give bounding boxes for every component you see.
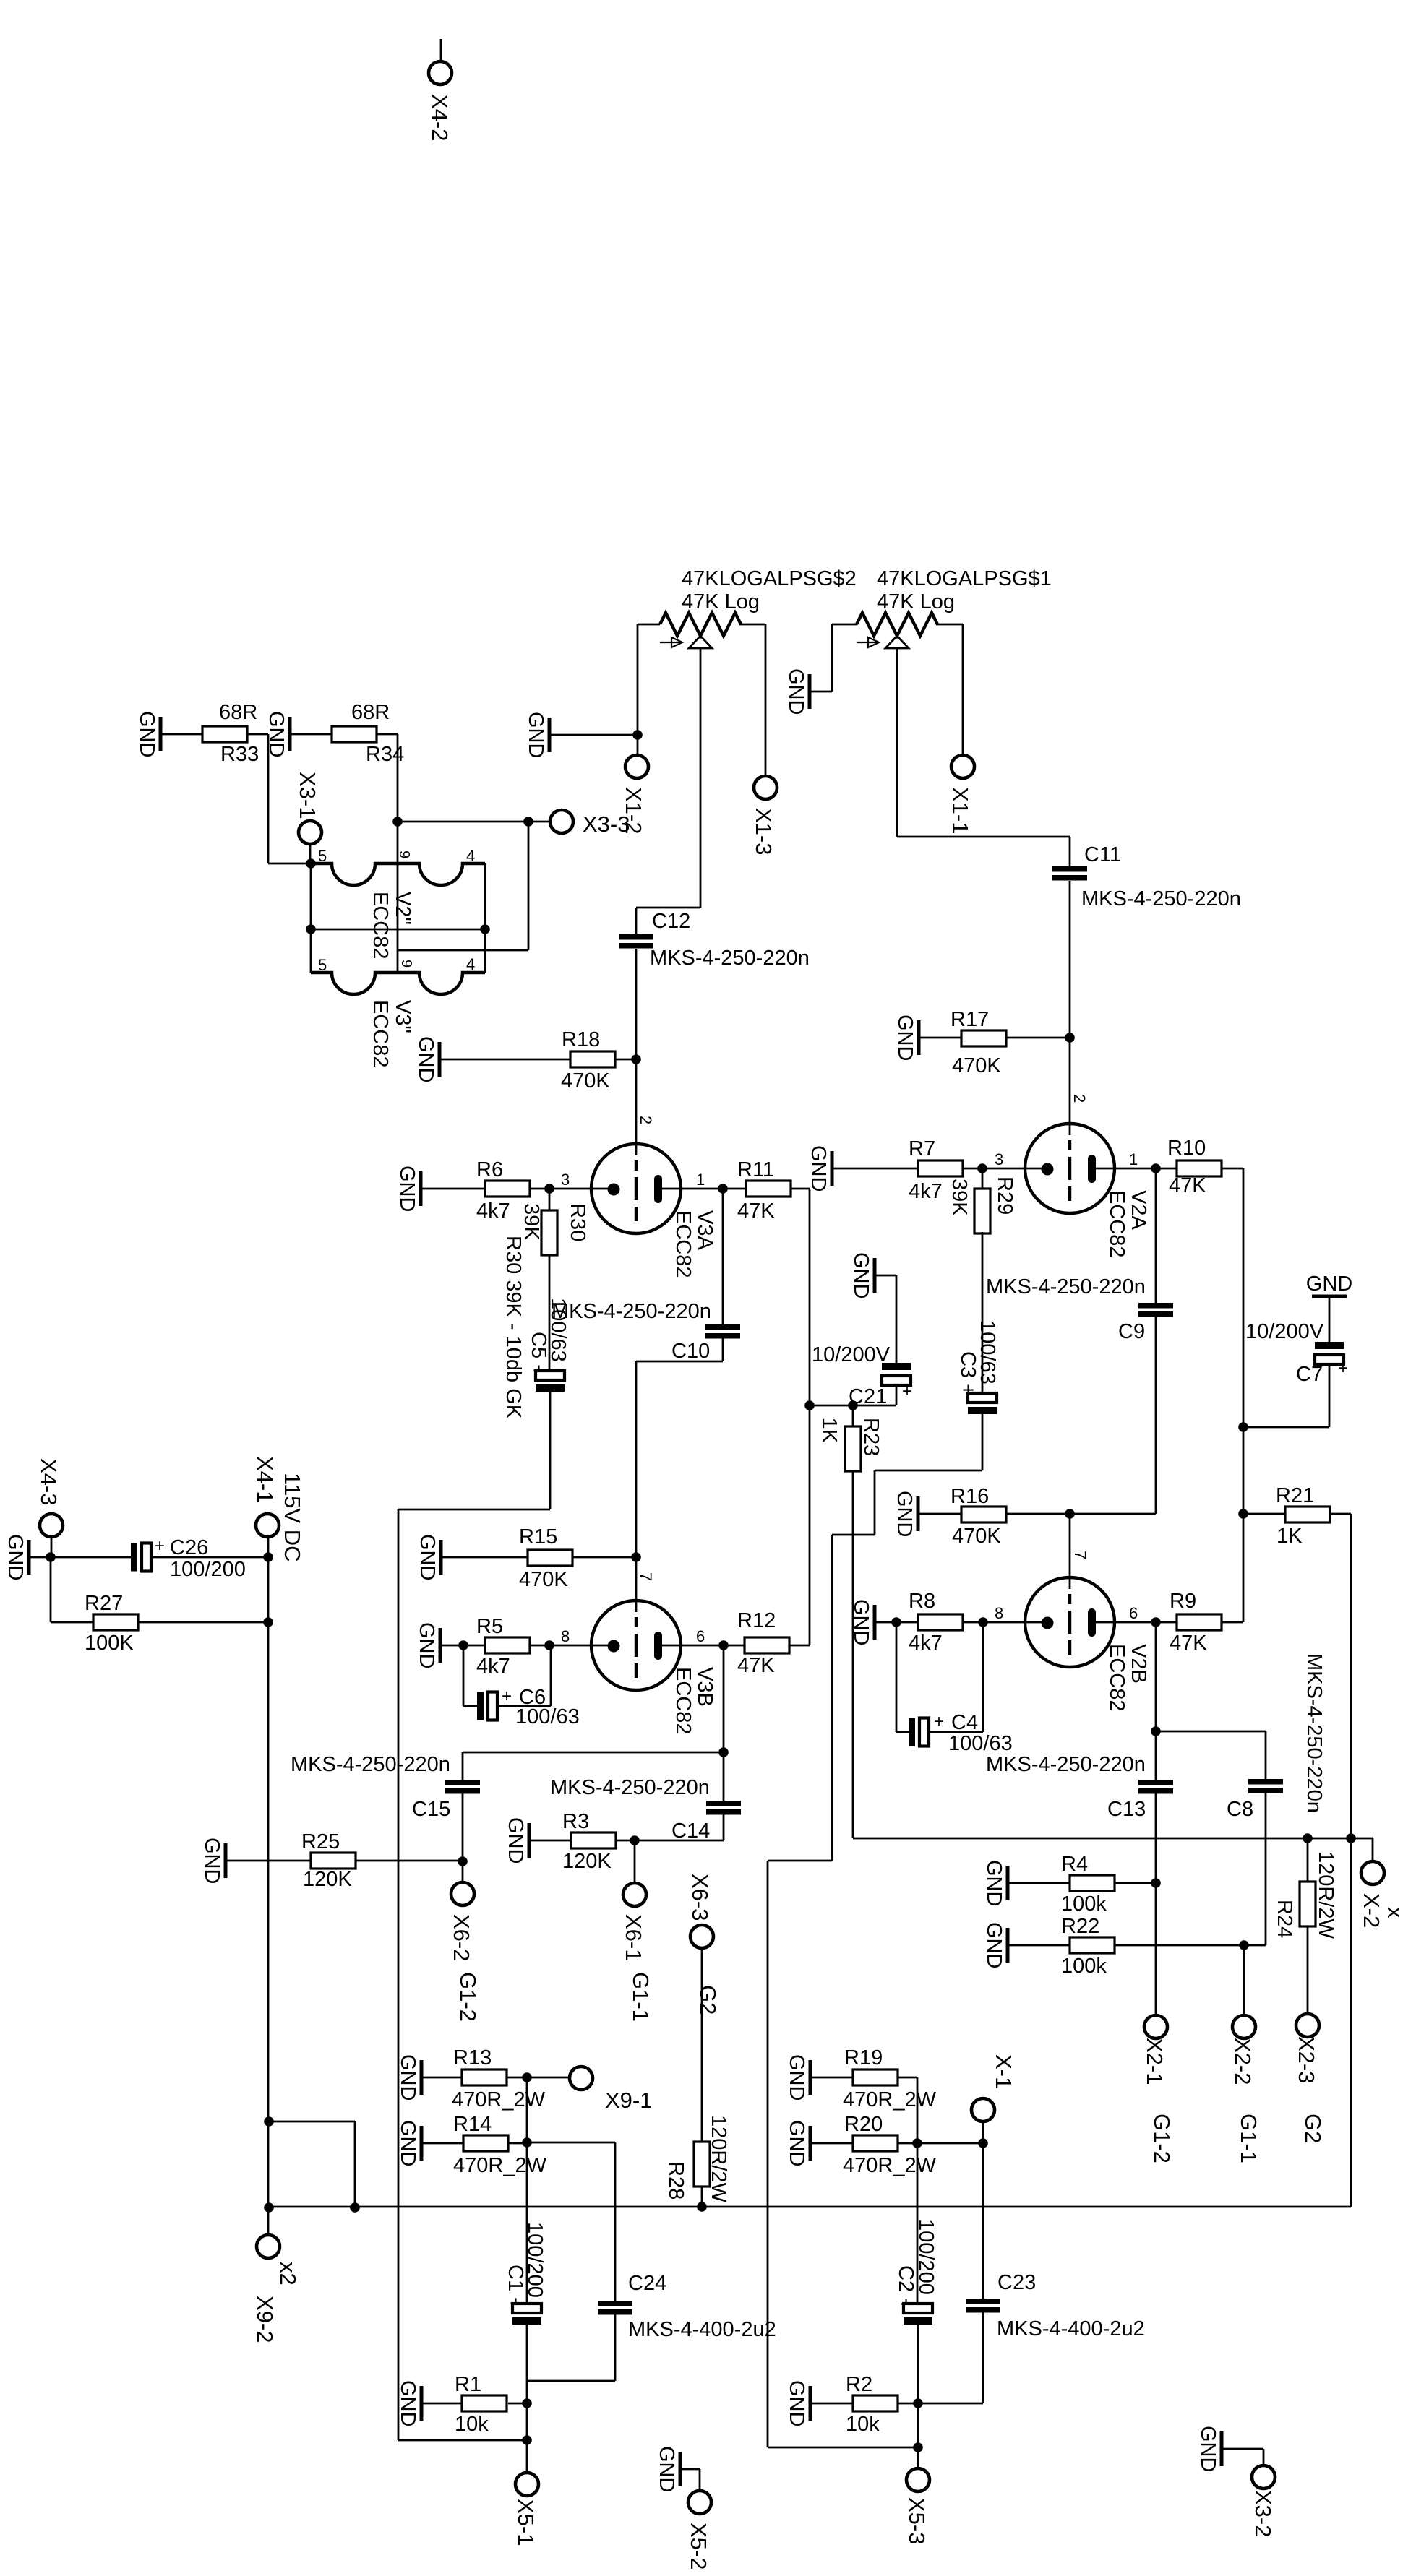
- svg-text:R27: R27: [85, 1592, 123, 1615]
- svg-text:X2-2: X2-2: [1230, 2038, 1256, 2085]
- svg-text:MKS-4-250-220n: MKS-4-250-220n: [1081, 887, 1241, 910]
- svg-text:115V DC: 115V DC: [280, 1473, 305, 1562]
- svg-text:R12: R12: [737, 1609, 776, 1632]
- svg-text:C26: C26: [170, 1536, 208, 1559]
- svg-text:X3-2: X3-2: [1250, 2490, 1276, 2537]
- svg-text:GND: GND: [785, 2380, 808, 2426]
- svg-text:V3": V3": [391, 1000, 414, 1033]
- svg-text:470K: 470K: [952, 1525, 1001, 1548]
- svg-text:R5: R5: [476, 1615, 503, 1638]
- svg-text:100/63: 100/63: [515, 1705, 580, 1728]
- svg-text:GND: GND: [414, 1036, 437, 1082]
- svg-text:R14: R14: [453, 2113, 492, 2136]
- svg-text:120K: 120K: [303, 1868, 352, 1891]
- svg-text:X6-1: X6-1: [621, 1914, 646, 1961]
- svg-text:MKS-4-400-2u2: MKS-4-400-2u2: [997, 2317, 1145, 2340]
- svg-text:R1: R1: [455, 2373, 481, 2396]
- svg-text:9: 9: [398, 960, 414, 968]
- svg-text:ECC82: ECC82: [671, 1210, 695, 1278]
- svg-text:7: 7: [637, 1572, 655, 1581]
- svg-text:+: +: [155, 1536, 165, 1556]
- svg-text:X4-3: X4-3: [36, 1458, 61, 1505]
- svg-text:R17: R17: [951, 1008, 989, 1031]
- svg-text:GND: GND: [396, 2380, 419, 2426]
- svg-text:GND: GND: [200, 1838, 223, 1884]
- svg-text:G1-2: G1-2: [455, 1972, 481, 2022]
- svg-text:10k: 10k: [455, 2413, 489, 2436]
- svg-text:2: 2: [637, 1116, 655, 1124]
- svg-text:1K: 1K: [1276, 1525, 1303, 1548]
- svg-text:X9-2: X9-2: [252, 2296, 278, 2343]
- svg-text:4k7: 4k7: [476, 1199, 510, 1223]
- svg-text:3: 3: [995, 1150, 1003, 1168]
- svg-text:R19: R19: [844, 2046, 883, 2069]
- svg-text:R25: R25: [301, 1830, 340, 1853]
- svg-text:8: 8: [995, 1604, 1003, 1622]
- svg-text:R23: R23: [859, 1418, 883, 1456]
- svg-text:47K Log: 47K Log: [682, 590, 760, 613]
- svg-text:x2: x2: [275, 2262, 301, 2286]
- svg-text:R15: R15: [519, 1525, 557, 1548]
- svg-text:4k7: 4k7: [909, 1180, 943, 1203]
- svg-text:GND: GND: [524, 712, 547, 758]
- svg-text:C24: C24: [628, 2272, 666, 2295]
- svg-text:4k7: 4k7: [476, 1655, 510, 1678]
- svg-text:R16: R16: [951, 1485, 989, 1508]
- svg-text:C7: C7: [1296, 1363, 1323, 1386]
- svg-text:47K: 47K: [737, 1199, 775, 1223]
- svg-text:R29: R29: [993, 1176, 1016, 1215]
- svg-text:GND: GND: [396, 2120, 419, 2166]
- svg-text:100/200: 100/200: [170, 1558, 246, 1581]
- svg-text:X2-1: X2-1: [1142, 2038, 1167, 2085]
- svg-text:R2: R2: [846, 2373, 872, 2396]
- svg-text:4: 4: [466, 847, 475, 865]
- svg-text:x: x: [1383, 1907, 1408, 1918]
- svg-text:470R_2W: 470R_2W: [843, 2154, 937, 2177]
- svg-text:47K: 47K: [1170, 1632, 1207, 1655]
- svg-text:ECC82: ECC82: [369, 892, 392, 960]
- svg-text:V3A: V3A: [693, 1210, 716, 1250]
- svg-text:GND: GND: [396, 2054, 419, 2101]
- svg-text:4: 4: [466, 955, 475, 973]
- svg-text:R30: R30: [566, 1203, 589, 1241]
- svg-text:X1-1: X1-1: [948, 787, 973, 834]
- svg-text:GND: GND: [4, 1534, 27, 1580]
- svg-text:+: +: [502, 1687, 512, 1706]
- svg-text:G1-1: G1-1: [628, 1972, 653, 2022]
- svg-text:C14: C14: [671, 1819, 710, 1843]
- svg-text:GND: GND: [415, 1622, 438, 1668]
- svg-text:R18: R18: [562, 1028, 600, 1051]
- svg-text:MKS-4-250-220n: MKS-4-250-220n: [1303, 1653, 1326, 1813]
- svg-text:MKS-4-400-2u2: MKS-4-400-2u2: [628, 2318, 776, 2341]
- svg-text:C9: C9: [1118, 1320, 1145, 1343]
- svg-text:GND: GND: [265, 711, 288, 757]
- svg-text:X5-1: X5-1: [513, 2499, 538, 2546]
- svg-text:470R_2W: 470R_2W: [452, 2088, 546, 2111]
- svg-text:+: +: [902, 1382, 912, 1401]
- svg-text:X-1: X-1: [991, 2054, 1016, 2089]
- svg-text:10/200V: 10/200V: [812, 1343, 891, 1366]
- svg-text:470R_2W: 470R_2W: [843, 2088, 937, 2111]
- svg-text:V2A: V2A: [1127, 1190, 1150, 1230]
- svg-text:V3B: V3B: [693, 1667, 716, 1707]
- svg-text:120R/2W: 120R/2W: [707, 2115, 730, 2203]
- svg-text:470R_2W: 470R_2W: [453, 2154, 547, 2177]
- svg-text:68R: 68R: [219, 701, 257, 724]
- svg-text:C12: C12: [652, 910, 690, 933]
- svg-text:C15: C15: [412, 1798, 450, 1821]
- svg-text:X4-2: X4-2: [427, 94, 452, 141]
- svg-text:X-2: X-2: [1359, 1893, 1384, 1928]
- svg-text:R7: R7: [909, 1137, 935, 1160]
- svg-text:47K: 47K: [1169, 1174, 1206, 1197]
- svg-text:GND: GND: [785, 2054, 808, 2101]
- svg-text:MKS-4-250-220n: MKS-4-250-220n: [550, 1776, 710, 1799]
- svg-text:10/200V: 10/200V: [1245, 1320, 1324, 1343]
- svg-text:X9-1: X9-1: [605, 2088, 652, 2113]
- svg-text:6: 6: [696, 1627, 705, 1645]
- svg-text:X3-1: X3-1: [295, 772, 320, 819]
- svg-text:X3-3: X3-3: [583, 811, 630, 837]
- svg-text:X5-3: X5-3: [904, 2497, 930, 2544]
- svg-text:470K: 470K: [519, 1568, 568, 1591]
- svg-text:X2-3: X2-3: [1294, 2036, 1319, 2083]
- svg-text:R8: R8: [909, 1590, 935, 1613]
- svg-text:100/63: 100/63: [976, 1320, 999, 1384]
- svg-text:R9: R9: [1170, 1590, 1196, 1613]
- svg-text:ECC82: ECC82: [1105, 1644, 1128, 1712]
- svg-text:470K: 470K: [952, 1054, 1001, 1077]
- svg-text:9: 9: [396, 850, 412, 858]
- svg-text:5: 5: [318, 847, 327, 865]
- svg-text:X6-3: X6-3: [687, 1874, 713, 1921]
- svg-text:ECC82: ECC82: [671, 1667, 695, 1735]
- svg-text:8: 8: [561, 1627, 570, 1645]
- svg-text:R30 39K - 10db GK: R30 39K - 10db GK: [502, 1236, 525, 1419]
- svg-text:100k: 100k: [1061, 1892, 1107, 1916]
- svg-text:120R/2W: 120R/2W: [1314, 1851, 1337, 1939]
- svg-text:GND: GND: [982, 1922, 1005, 1968]
- svg-text:39K: 39K: [948, 1179, 971, 1216]
- svg-text:V2": V2": [391, 892, 414, 925]
- svg-text:R11: R11: [737, 1158, 774, 1181]
- svg-text:R4: R4: [1061, 1853, 1088, 1876]
- svg-text:ECC82: ECC82: [369, 1000, 392, 1068]
- svg-text:1: 1: [1129, 1150, 1138, 1168]
- svg-text:GND: GND: [655, 2446, 678, 2492]
- svg-text:MKS-4-250-220n: MKS-4-250-220n: [291, 1753, 450, 1776]
- svg-text:7: 7: [1071, 1551, 1089, 1559]
- svg-text:R6: R6: [476, 1158, 503, 1181]
- svg-text:X1-3: X1-3: [751, 808, 776, 855]
- svg-text:R33: R33: [220, 743, 259, 766]
- svg-text:2: 2: [1070, 1094, 1089, 1103]
- svg-text:C4: C4: [951, 1711, 978, 1734]
- svg-text:G1-2: G1-2: [1149, 2114, 1175, 2163]
- svg-text:MKS-4-250-220n: MKS-4-250-220n: [650, 947, 810, 970]
- svg-text:R24: R24: [1273, 1900, 1296, 1938]
- svg-text:ECC82: ECC82: [1105, 1190, 1128, 1258]
- svg-text:G1-1: G1-1: [1236, 2114, 1261, 2163]
- svg-text:GND: GND: [849, 1252, 872, 1298]
- svg-text:10k: 10k: [846, 2413, 880, 2436]
- svg-text:100k: 100k: [1061, 1955, 1107, 1978]
- svg-text:GND: GND: [135, 711, 158, 757]
- svg-text:GND: GND: [982, 1860, 1005, 1906]
- svg-text:GND: GND: [1306, 1272, 1352, 1296]
- svg-text:R10: R10: [1167, 1137, 1206, 1160]
- svg-text:X4-1: X4-1: [252, 1456, 278, 1503]
- svg-text:C10: C10: [671, 1340, 710, 1363]
- svg-text:R3: R3: [562, 1810, 589, 1833]
- svg-text:GND: GND: [807, 1145, 830, 1192]
- svg-text:X5-2: X5-2: [686, 2523, 711, 2569]
- svg-text:470K: 470K: [561, 1069, 610, 1093]
- svg-text:47K: 47K: [737, 1654, 775, 1677]
- svg-text:G2: G2: [695, 1985, 721, 2015]
- svg-text:G2: G2: [1300, 2114, 1326, 2143]
- svg-text:X6-2: X6-2: [449, 1914, 474, 1961]
- svg-text:MKS-4-250-220n: MKS-4-250-220n: [986, 1753, 1146, 1776]
- svg-text:4k7: 4k7: [909, 1632, 943, 1655]
- svg-text:GND: GND: [416, 1534, 439, 1580]
- svg-text:GND: GND: [784, 668, 807, 715]
- svg-text:C23: C23: [997, 2271, 1036, 2294]
- svg-text:GND: GND: [893, 1491, 916, 1537]
- svg-text:MKS-4-250-220n: MKS-4-250-220n: [552, 1300, 711, 1323]
- svg-text:C13: C13: [1107, 1798, 1146, 1821]
- svg-text:R20: R20: [844, 2113, 883, 2136]
- svg-text:1K: 1K: [818, 1418, 841, 1444]
- svg-text:100K: 100K: [85, 1632, 134, 1655]
- svg-text:R22: R22: [1061, 1915, 1099, 1938]
- svg-text:47K Log: 47K Log: [877, 590, 955, 613]
- svg-text:68R: 68R: [351, 701, 390, 724]
- svg-text:120K: 120K: [562, 1850, 612, 1873]
- svg-text:R21: R21: [1276, 1484, 1314, 1507]
- svg-text:R28: R28: [664, 2161, 687, 2200]
- svg-text:V2B: V2B: [1127, 1644, 1150, 1684]
- svg-text:GND: GND: [849, 1599, 872, 1645]
- svg-text:C8: C8: [1227, 1798, 1253, 1821]
- svg-text:1: 1: [696, 1171, 705, 1189]
- svg-text:GND: GND: [504, 1817, 527, 1864]
- svg-text:R13: R13: [453, 2046, 492, 2069]
- svg-text:5: 5: [318, 956, 327, 974]
- svg-text:C11: C11: [1084, 843, 1121, 866]
- svg-text:+: +: [1338, 1358, 1348, 1378]
- svg-text:GND: GND: [893, 1015, 917, 1061]
- svg-text:GND: GND: [785, 2120, 808, 2166]
- svg-text:47KLOGALPSG$2: 47KLOGALPSG$2: [682, 567, 857, 590]
- svg-text:6: 6: [1129, 1604, 1138, 1622]
- svg-text:MKS-4-250-220n: MKS-4-250-220n: [986, 1275, 1146, 1298]
- svg-text:100/63: 100/63: [948, 1732, 1013, 1755]
- svg-text:GND: GND: [1196, 2426, 1219, 2472]
- svg-text:GND: GND: [395, 1166, 419, 1212]
- svg-text:3: 3: [561, 1171, 570, 1189]
- svg-text:+: +: [934, 1712, 944, 1731]
- svg-text:47KLOGALPSG$1: 47KLOGALPSG$1: [877, 567, 1052, 590]
